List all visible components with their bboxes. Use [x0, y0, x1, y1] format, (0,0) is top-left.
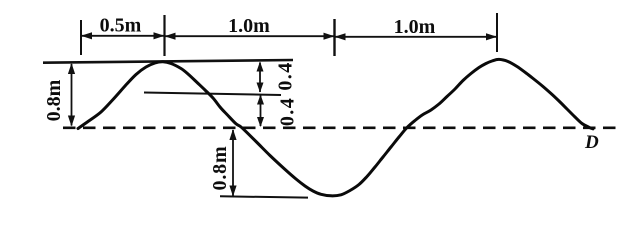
crest level reference line	[43, 60, 293, 63]
svg-text:0.4: 0.4	[275, 61, 297, 90]
tick T4 (above second crest)	[496, 13, 498, 52]
tick T1 (left end of 0.5m dimension)	[80, 20, 82, 55]
equilibrium dashed line D	[63, 127, 616, 130]
svg-text:0.5m: 0.5m	[100, 15, 142, 37]
svg-text:0.8m: 0.8m	[209, 146, 231, 191]
label 1.0m (left)	[228, 15, 270, 37]
dimension line 0.5m with arrows	[81, 32, 165, 39]
label 0.5m	[100, 15, 142, 37]
tick T2 (above first crest)	[163, 15, 165, 56]
dimension 0.8m (trough depth) double arrow	[229, 129, 236, 197]
dimension 0.4 (lower) double arrow	[257, 95, 264, 128]
dimension line 1.0m (left) with arrows	[165, 33, 335, 40]
svg-text:1.0m: 1.0m	[394, 16, 436, 38]
trough level reference line	[220, 196, 308, 197]
svg-text:1.0m: 1.0m	[228, 15, 270, 37]
label 0.4 (upper, rotated)	[275, 61, 297, 90]
svg-text:D: D	[584, 132, 599, 153]
label 0.8m (trough, rotated)	[209, 146, 231, 191]
svg-text:0.8m: 0.8m	[43, 79, 65, 121]
dimension 0.8m (left, crest height) double arrow	[68, 63, 75, 127]
label 0.8m (left, rotated)	[43, 79, 65, 121]
label D	[584, 132, 599, 153]
label 1.0m (right)	[394, 16, 436, 38]
wave curve	[78, 59, 593, 195]
tick T3 (middle of top dimension chain)	[333, 19, 335, 56]
svg-text:0.4: 0.4	[277, 97, 299, 126]
dimension line 1.0m (right) with arrows	[335, 33, 498, 40]
label 0.4 (lower, rotated)	[277, 97, 299, 126]
mid level reference line (0.4 split)	[144, 93, 281, 96]
dimension 0.4 (upper) double arrow	[257, 62, 264, 93]
